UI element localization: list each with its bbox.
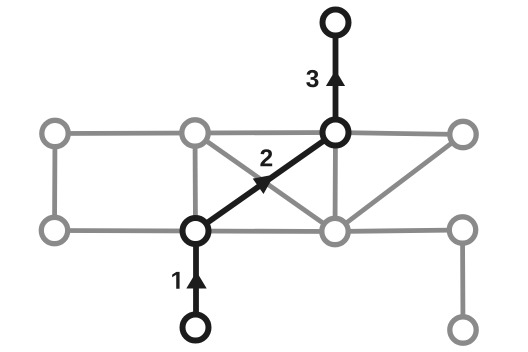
edge 2 F-C	[196, 133, 336, 232]
wire B-F	[193, 133, 198, 231]
wire D-G	[335, 135, 463, 232]
edge 1 J-F	[193, 231, 199, 328]
arrowhead 2	[253, 175, 275, 195]
label 3	[306, 70, 318, 87]
node A	[42, 120, 68, 146]
node D	[450, 121, 476, 147]
node B	[182, 120, 208, 146]
wire G-H	[335, 230, 463, 232]
arrowhead 3	[326, 70, 345, 86]
wire A-E	[52, 134, 57, 231]
node H	[449, 217, 475, 243]
node C	[323, 120, 349, 146]
wire H-K	[460, 230, 465, 330]
node I	[323, 10, 349, 36]
wire C-G	[333, 133, 338, 232]
node E	[41, 217, 67, 243]
wire B-C	[195, 130, 336, 135]
wire E-F	[55, 228, 196, 233]
wire F-G	[196, 229, 336, 234]
wire A-B	[55, 131, 195, 136]
node J	[183, 315, 209, 341]
node F	[183, 218, 209, 244]
wire B-G	[195, 133, 335, 232]
node K	[450, 317, 476, 343]
label 1	[172, 272, 179, 289]
edge 3 C-I	[333, 23, 339, 133]
node G	[322, 218, 348, 244]
arrowhead 1	[186, 272, 206, 289]
wire C-D	[336, 133, 464, 135]
label 2	[260, 149, 272, 166]
